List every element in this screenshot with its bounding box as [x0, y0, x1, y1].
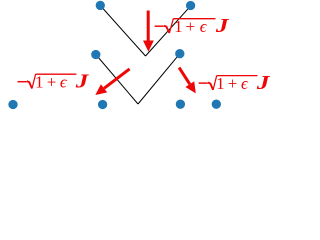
svg-text:ϵ: ϵ [60, 73, 68, 92]
svg-text:ϵ: ϵ [200, 17, 208, 36]
arrow top (points down at upper-V vertex) [143, 11, 154, 52]
node site top-left [96, 1, 105, 10]
svg-text:1: 1 [216, 74, 225, 93]
svg-text:J: J [75, 71, 90, 93]
svg-text:J: J [256, 72, 271, 94]
arrow bottom-left (points down-left) [95, 69, 129, 95]
node site bottom-far-right [212, 100, 221, 109]
wire bond upper-V left [100, 6, 145, 57]
node site bottom-right [176, 100, 185, 109]
svg-text:ϵ: ϵ [241, 74, 249, 93]
arrow bottom-right (points down-right) [179, 68, 196, 94]
svg-text:J: J [215, 15, 230, 37]
svg-text:+: + [47, 73, 57, 92]
label top: -sqrt(1+eps) J [155, 15, 230, 37]
node site bottom-left [98, 100, 107, 109]
node site mid-left [91, 50, 100, 59]
node site top-right [186, 1, 195, 10]
node site bottom-far-left [8, 100, 17, 109]
svg-text:1: 1 [35, 73, 44, 92]
svg-text:1: 1 [174, 17, 183, 36]
label right: -sqrt(1+eps) J [199, 72, 271, 94]
wire bond upper-V right [146, 6, 191, 56]
wire bond lower-V right [138, 54, 180, 104]
svg-text:+: + [228, 74, 238, 93]
svg-text:+: + [186, 17, 196, 36]
wire bond lower-V left [96, 55, 138, 105]
label left: -sqrt(1+eps) J [18, 71, 90, 93]
node site mid-right [175, 49, 184, 58]
